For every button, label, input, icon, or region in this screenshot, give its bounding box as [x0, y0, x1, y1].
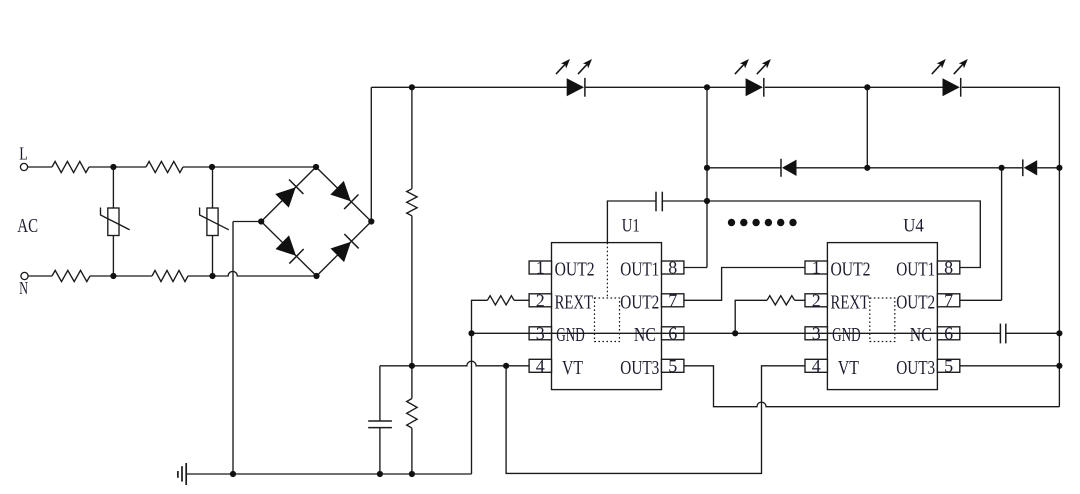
- bypass diode D6 (points left): [1023, 159, 1037, 176]
- wire U1 pad stem (solid above body): [607, 201, 656, 243]
- wire U1 REXT lead: [514, 299, 529, 301]
- svg-text:6: 6: [668, 323, 677, 343]
- svg-text:N: N: [19, 278, 28, 298]
- wire drop rail to row2 at x=867.3: [866, 87, 868, 168]
- U4 thermal pad (dotted): [870, 298, 895, 342]
- svg-text:REXT: REXT: [831, 292, 870, 313]
- junction node at (1059.4,333.3): [1056, 330, 1062, 336]
- wire varistor RV1 bottom lead: [112, 236, 114, 277]
- wire U4 REXT riser to GND net: [735, 300, 767, 333]
- wire L lead: [28, 166, 52, 168]
- wire U4 pin7 lead: [960, 299, 1002, 301]
- junction node at (371.3,221.5): [368, 218, 374, 224]
- LED LED3: [932, 57, 971, 97]
- svg-text:2: 2: [812, 290, 821, 310]
- wire C2 stem bottom: [379, 428, 381, 474]
- wire U1 pin8 lead: [684, 267, 707, 269]
- wire varistor RV2 bottom lead: [212, 236, 214, 277]
- junction node at (411.9,474): [409, 471, 415, 477]
- ellipsis dot 1 (repeated stages): [728, 219, 735, 226]
- svg-text:AC: AC: [17, 215, 38, 237]
- varistor RV1: [101, 208, 130, 236]
- U1 pin 5 box: [662, 359, 684, 372]
- U4 pin 8 box: [937, 261, 959, 274]
- junction node at (867.3,167.8): [864, 165, 870, 171]
- resistor R1 (line L first): [52, 161, 89, 172]
- ground symbol: [178, 463, 186, 485]
- wire U4 pin4 VT return loop: [506, 366, 805, 474]
- junction node at (735.2,333.3): [732, 330, 738, 336]
- svg-text:7: 7: [944, 290, 953, 310]
- svg-text:1: 1: [812, 258, 821, 278]
- svg-text:4: 4: [812, 356, 821, 376]
- svg-text:NC: NC: [634, 325, 656, 346]
- U4 pin 6 box: [937, 327, 959, 340]
- svg-text:L: L: [19, 144, 28, 164]
- U4 pin 3 box: [805, 327, 827, 340]
- LED LED2: [735, 57, 774, 97]
- wire U1 pin7 to U4 pin1: [684, 268, 805, 301]
- junction node at (113.4,276): [110, 273, 116, 279]
- U1 pin 2 box: [529, 294, 551, 307]
- svg-text:8: 8: [944, 258, 953, 278]
- svg-text:U1: U1: [622, 215, 640, 236]
- svg-text:OUT1: OUT1: [620, 260, 659, 281]
- junction node at (1059.4,167.8): [1056, 165, 1062, 171]
- junction node at (261.2,221.5): [258, 218, 264, 224]
- svg-text:OUT2: OUT2: [555, 260, 595, 281]
- wire bridge left vertex to ground drop: [233, 221, 261, 223]
- wire varistor RV2 top lead: [212, 167, 214, 208]
- varistor RV2: [200, 208, 229, 236]
- capacitor C1: [656, 192, 662, 212]
- svg-text:OUT2: OUT2: [896, 292, 935, 313]
- junction node at (867.3,87.3): [864, 84, 870, 90]
- svg-text:OUT2: OUT2: [620, 292, 659, 313]
- U4 pin 2 box: [805, 294, 827, 307]
- resistor R5 (U1 REXT): [487, 296, 514, 305]
- svg-text:5: 5: [944, 356, 953, 376]
- U1 pin 8 box: [662, 261, 684, 274]
- junction node at (411.9,87.3): [409, 84, 415, 90]
- wire GND net long line: [472, 332, 1001, 334]
- wire bridge right vertex riser to top rail: [370, 87, 372, 221]
- wire C2 stem top: [379, 366, 381, 421]
- svg-text:OUT2: OUT2: [831, 260, 871, 281]
- wire ground bus: [186, 473, 471, 475]
- IC U4 body: [827, 243, 937, 390]
- capacitor C4 (NC line): [1000, 324, 1005, 344]
- junction node at (411.9,365.8): [409, 363, 415, 369]
- LED LED1: [556, 57, 595, 97]
- svg-text:GND: GND: [832, 325, 861, 346]
- junction node at (212,167): [209, 164, 215, 170]
- ellipsis dot 5 (repeated stages): [777, 219, 784, 226]
- wire varistor RV1 top lead: [112, 167, 114, 208]
- ellipsis dot 4 (repeated stages): [765, 219, 772, 226]
- U4 pin 4 box: [805, 359, 827, 372]
- U1 pin 6 box: [662, 327, 684, 340]
- svg-text:U4: U4: [903, 215, 924, 236]
- ellipsis dot 2 (repeated stages): [740, 219, 747, 226]
- resistor R8 (lower divider): [407, 399, 417, 429]
- junction node at (379.9,474): [377, 471, 383, 477]
- wire drop rail to row2 at x=707: [706, 87, 708, 267]
- U1 pin 7 box: [662, 294, 684, 307]
- U1 pin 1 box: [529, 261, 551, 274]
- wire divider top lead: [411, 87, 413, 189]
- bridge diode D3 bottom-left: [275, 235, 304, 264]
- wire N mid: [90, 275, 152, 277]
- wire C4 to right edge drop: [1006, 332, 1060, 334]
- resistor R4 (line N second): [152, 270, 188, 281]
- U4 pin 7 box: [937, 294, 959, 307]
- bridge rectifier BR1 edges (wires): [261, 167, 371, 276]
- wire cap row to U4 pin8 riser: [707, 201, 980, 268]
- svg-text:2: 2: [536, 290, 545, 310]
- junction node at (1001.6,167.8): [999, 165, 1005, 171]
- svg-text:OUT3: OUT3: [620, 358, 659, 379]
- junction node at (233,474): [230, 471, 236, 477]
- wire L to bridge top: [183, 166, 316, 168]
- wire ground drop (left vertical): [232, 222, 234, 475]
- svg-text:1: 1: [536, 258, 545, 278]
- wire N lead: [28, 275, 52, 277]
- resistor R7 (upper divider): [407, 189, 417, 216]
- junction node at (707,167.8): [704, 165, 710, 171]
- wire drop row2 to U4 pin7 riser: [1001, 168, 1003, 300]
- wire U4 REXT lead: [795, 299, 805, 301]
- bypass diode D5 (points left): [781, 159, 797, 177]
- junction node at (707,201): [704, 198, 710, 204]
- junction node at (506.1,365.8): [503, 363, 509, 369]
- wire VT row (hop over REXT riser): [380, 361, 529, 366]
- wire U1 pin5 OUT3 run (hop over U4 VT drop): [684, 366, 1060, 407]
- resistor R6 (U4 REXT): [767, 296, 795, 305]
- svg-text:3: 3: [812, 323, 821, 343]
- wire row2 segment 1: [707, 167, 781, 169]
- wire C1 to x707 node: [662, 200, 707, 202]
- wire row2 segment 2: [797, 167, 1023, 169]
- junction node at (113.4,167): [110, 164, 116, 170]
- U4 pin 5 box: [937, 359, 959, 372]
- svg-text:8: 8: [668, 258, 677, 278]
- svg-text:5: 5: [668, 356, 677, 376]
- resistor R3 (line N first): [52, 270, 90, 281]
- wire L mid: [89, 166, 146, 168]
- ellipsis dot 3 (repeated stages): [752, 219, 759, 226]
- wire U4 pin5 lead: [960, 365, 1060, 367]
- terminal N: [21, 272, 28, 279]
- wire row2 segment 3: [1037, 167, 1059, 169]
- bridge diode D2 top-right: [330, 180, 359, 209]
- U1 pin 3 box: [529, 327, 551, 340]
- junction node at (316,167): [313, 164, 319, 170]
- wire top rail segment 4 and right-edge drop: [962, 87, 1060, 406]
- svg-text:VT: VT: [562, 358, 583, 379]
- U1 thermal pad (dotted) with stem: [595, 243, 620, 342]
- U4 pin 1 box: [805, 261, 827, 274]
- svg-text:NC: NC: [910, 325, 932, 346]
- svg-text:OUT1: OUT1: [896, 260, 935, 281]
- junction node at (471.5,333.3): [468, 330, 474, 336]
- svg-text:6: 6: [944, 323, 953, 343]
- ellipsis dot 6 (repeated stages): [789, 219, 796, 226]
- bridge diode D4 bottom-right: [330, 234, 359, 263]
- junction node at (707,87.3): [704, 84, 710, 90]
- capacitor C2: [368, 421, 392, 428]
- terminal L: [20, 163, 27, 170]
- wire U1 REXT riser to ground bus: [472, 300, 488, 474]
- wire divider bottom lead: [411, 428, 413, 474]
- svg-text:4: 4: [536, 356, 545, 376]
- wire divider middle: [411, 216, 413, 399]
- wire top rail segment 1: [371, 86, 566, 88]
- junction node at (1059.4,365.8): [1056, 363, 1062, 369]
- svg-text:7: 7: [668, 290, 677, 310]
- wire N to bridge bottom (hop over ground drop): [188, 271, 317, 276]
- U1 pin 4 box: [529, 359, 551, 372]
- svg-text:REXT: REXT: [555, 292, 594, 313]
- IC U1 body: [552, 243, 662, 390]
- svg-text:VT: VT: [838, 358, 859, 379]
- bridge diode D1 top-left: [275, 179, 304, 208]
- junction node at (316.5,276): [313, 273, 319, 279]
- junction node at (212.5,276): [209, 273, 215, 279]
- svg-text:OUT3: OUT3: [896, 358, 935, 379]
- svg-text:GND: GND: [556, 325, 585, 346]
- svg-text:3: 3: [536, 323, 545, 343]
- resistor R2 (line L second): [146, 161, 183, 172]
- wire top rail segment 3: [765, 86, 943, 88]
- wire top rail segment 2: [586, 86, 746, 88]
